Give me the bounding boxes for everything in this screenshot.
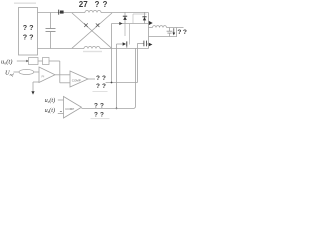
- capacitor C1 bottom lead: [50, 32, 52, 49]
- load current arrow: [173, 28, 175, 33]
- series component body on top bus: [60, 11, 64, 14]
- cross mark x1: [84, 23, 88, 27]
- capacitor C2 bottom plate: [167, 32, 171, 34]
- junction dot V1 rail: [111, 82, 113, 84]
- error amp output wire: [55, 74, 70, 76]
- feedback arrowhead down: [31, 91, 34, 94]
- diode D2 lead: [144, 12, 146, 24]
- block box B: [43, 58, 50, 65]
- svg-text:?: ?: [100, 111, 104, 118]
- secondary node wire vertical V1: [111, 24, 113, 83]
- load line: [176, 28, 178, 37]
- transistor Q2 arrow: [149, 43, 153, 47]
- drain wire V7 to switch Q1: [129, 24, 131, 45]
- comparator U3 input wire 1: [58, 99, 64, 101]
- output filter inductor L3: [153, 26, 167, 28]
- svg-text:?: ?: [103, 0, 108, 9]
- PWM comparator U2: [70, 71, 88, 87]
- faint artifact above box: [14, 2, 36, 4]
- svg-text:?: ?: [100, 103, 104, 110]
- svg-text:?: ?: [23, 23, 27, 32]
- svg-text:?: ?: [96, 75, 100, 82]
- input filter capacitor C1 top lead: [50, 13, 52, 29]
- svg-text:?: ?: [29, 32, 33, 41]
- output capacitor C2 top lead: [169, 28, 171, 32]
- svg-text:COMP: COMP: [72, 78, 81, 82]
- output wire bottom: [149, 36, 178, 38]
- transistor Q2 plate 1: [143, 41, 145, 47]
- transformer cross diagonal 2: [72, 13, 112, 48]
- lower driver label underline: [91, 118, 110, 120]
- secondary horizontal wire H1: [112, 23, 149, 25]
- diode D1 cathode bar: [123, 15, 127, 17]
- svg-text:?: ?: [102, 75, 106, 82]
- wire to comparator lower input: [60, 82, 70, 84]
- snubber box left wire: [132, 14, 134, 24]
- comparator U3 input wire 2: [58, 113, 64, 115]
- svg-text:27: 27: [79, 0, 88, 9]
- svg-text:?: ?: [94, 103, 98, 110]
- svg-text:?: ?: [102, 83, 106, 90]
- svg-text:?: ?: [183, 29, 187, 36]
- transistor Q1 gate wire: [117, 43, 123, 45]
- svg-text:?: ?: [95, 0, 100, 9]
- diode D1 body: [123, 17, 127, 20]
- svg-text:uo(t): uo(t): [1, 58, 12, 65]
- svg-text:?: ?: [96, 83, 100, 90]
- minus sign at U3 input: [60, 111, 62, 113]
- inductor L1 primary top winding: [85, 11, 101, 13]
- svg-text:?: ?: [23, 32, 27, 41]
- svg-text:PI: PI: [42, 75, 45, 79]
- gate drive vertical V3: [116, 44, 118, 109]
- transistor Q2 gate wire: [138, 42, 144, 44]
- transistor Q2 plate 2: [145, 41, 147, 47]
- load current arrowhead: [172, 33, 175, 36]
- transformer cross diagonal 1: [72, 13, 112, 48]
- current arrow on H1: [119, 22, 122, 25]
- wire box B drop: [59, 61, 61, 83]
- feedback vertical wire: [32, 82, 34, 91]
- output wire top: [149, 27, 153, 29]
- reference wire left: [14, 71, 20, 73]
- driver label underline: [93, 90, 108, 92]
- svg-text:uc(t): uc(t): [45, 97, 56, 104]
- diode D1 lead: [124, 12, 126, 24]
- drive rail wire W5: [106, 82, 138, 84]
- capacitor C1 bottom plate: [46, 31, 56, 33]
- svg-text:?: ?: [94, 111, 98, 118]
- drain wire V6 below diode D1: [124, 24, 126, 37]
- wire box B right: [49, 60, 60, 62]
- comparator U3 output wire W6: [82, 108, 134, 110]
- wire box A to box B: [38, 60, 43, 62]
- transistor Q1 arrow: [123, 42, 126, 46]
- switch branch vertical V2: [148, 13, 150, 49]
- reference wire right: [34, 71, 39, 73]
- transistor Q1 bar lead: [126, 47, 128, 48]
- transistor Q2 drain link: [146, 43, 148, 45]
- feedback corner wire: [33, 81, 39, 83]
- faint artifact under bottom winding: [83, 51, 102, 52]
- input signal arrowhead: [26, 60, 28, 62]
- svg-text:us(t): us(t): [45, 107, 55, 114]
- gate drive vertical V5: [137, 43, 139, 82]
- svg-text:COMP: COMP: [65, 107, 74, 111]
- diode D2 cathode bar: [142, 16, 146, 18]
- wire bottom bus right: [100, 48, 149, 50]
- wire bottom bus left: [38, 48, 85, 50]
- arrow at output node: [149, 21, 153, 25]
- svg-text:?: ?: [29, 23, 33, 32]
- output wire top right: [167, 27, 184, 29]
- cross mark x2: [96, 23, 100, 27]
- svg-text:?: ?: [177, 29, 181, 36]
- input signal wire: [17, 60, 29, 62]
- wire top bus right: [101, 12, 149, 14]
- series component bar on top bus: [58, 10, 60, 15]
- block box A: [29, 58, 39, 65]
- inductor L2 primary bottom winding: [84, 47, 100, 49]
- comparator U3: [64, 97, 82, 119]
- junction dot V3 W6: [116, 108, 118, 110]
- gate drive vertical V4 with corner: [133, 48, 136, 109]
- capacitor C2 bottom lead: [169, 33, 171, 36]
- rectifier/filter block box: [19, 8, 38, 56]
- capacitor C1 top plate: [46, 28, 56, 30]
- wire top bus left: [38, 12, 86, 14]
- diode D2 body: [143, 17, 146, 20]
- comparator U2 output wire: [88, 78, 95, 80]
- transistor Q1 bar: [126, 41, 128, 46]
- capacitor C2 top plate: [167, 30, 173, 32]
- snubber box top wire: [133, 13, 147, 15]
- error amplifier U1: [39, 67, 55, 83]
- reference oval: [19, 69, 34, 74]
